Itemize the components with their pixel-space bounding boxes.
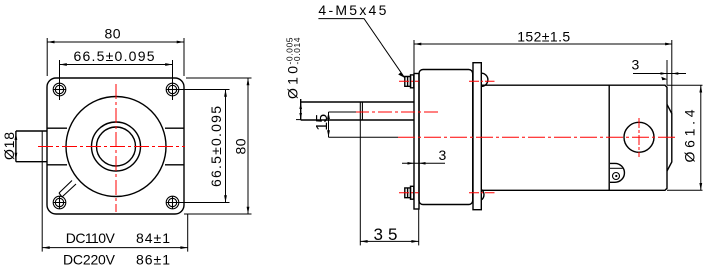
svg-text:3: 3 (632, 57, 640, 73)
dim 3 flange: leader (402, 162, 445, 164)
shaft centerline (355, 111, 438, 113)
svg-text:66.5±0.095: 66.5±0.095 (208, 106, 224, 187)
rear boss circle (624, 122, 654, 152)
dim 84 bottom: line (42, 247, 187, 249)
dim 3 top rear: line (633, 73, 686, 75)
arrows dim 15 (327, 112, 330, 119)
dim 3 rear ext left upper (666, 60, 668, 85)
arrows dim 152 (414, 43, 421, 46)
adapter plate (473, 63, 481, 210)
svg-text:84±1: 84±1 (136, 230, 170, 246)
dim 152 ext left (above flange) (413, 40, 415, 74)
bolt axis top at motor (469, 80, 495, 82)
arrowheads right view (299, 43, 702, 243)
horizontal centerline (38, 146, 185, 148)
shaft end face (300, 99, 302, 120)
arrows dim 35 (360, 240, 367, 243)
dim 66.5 top: line (60, 64, 173, 66)
bolt dome bottom front (481, 189, 484, 200)
flange square outline (47, 78, 184, 214)
shaft step groove (360, 102, 362, 120)
svg-text:86±1: 86±1 (136, 252, 170, 267)
dim 35 line (360, 240, 418, 242)
svg-text:Ø18: Ø18 (1, 132, 17, 160)
dim 80 right ext lines (186, 78, 252, 214)
screw head top-left (53, 83, 66, 96)
arrows dim 80 right (247, 78, 250, 85)
bolt axis bottom at flange (399, 192, 419, 194)
arrows dim 84 bottom (42, 246, 49, 249)
svg-text:Ø61.4: Ø61.4 (682, 109, 698, 162)
screw head bottom-left (53, 196, 66, 209)
svg-text:DC110V: DC110V (66, 230, 116, 246)
dim O61.4 line (700, 85, 702, 190)
red centerlines right view (355, 81, 678, 193)
main motor centerline (398, 136, 678, 138)
vertical centerline (115, 84, 117, 212)
svg-text:15: 15 (314, 114, 331, 131)
rear boss (667, 105, 672, 172)
svg-text:Ø10: Ø10 (285, 66, 301, 99)
arrows dim 3 flange (408, 162, 415, 165)
dim 152 ext right / boss ext (671, 40, 673, 114)
right side boss (165, 128, 184, 165)
rear circle vertical centerline (638, 118, 640, 157)
arrows dim 66.5 top (60, 63, 67, 66)
dim 84 bottom right ext line (184, 214, 188, 252)
svg-text:66.5±0.095: 66.5±0.095 (74, 48, 155, 64)
dim 80 top: line (47, 41, 184, 43)
arrows dim O61.4 (699, 85, 702, 92)
svg-text:152±1.5: 152±1.5 (517, 29, 570, 45)
arrows dim 80 top (47, 41, 54, 44)
red centerlines, left view (38, 84, 185, 212)
arrow of 4-M5x45 leader (398, 73, 404, 78)
motor cap seam (608, 85, 610, 190)
svg-text:80: 80 (105, 26, 121, 42)
dim 35 ext right (418, 209, 420, 245)
small arrow at rear cap corner (661, 77, 667, 80)
screw head top-right (166, 83, 179, 96)
left side boss (47, 128, 67, 165)
dim O10 leader bottom (296, 119, 301, 121)
shaft step line + bottom dim extension (41, 131, 43, 252)
bolt dome top front (481, 73, 488, 86)
screw head bottom-right (166, 196, 179, 209)
svg-text:DC220V: DC220V (63, 252, 116, 267)
flange plate (414, 74, 419, 210)
terminal cap bottom rear (610, 163, 624, 182)
arrows dim 3 rear (661, 72, 668, 75)
dim 15: line (328, 112, 330, 137)
dim 35 ext left (359, 120, 361, 245)
leader 4-M5x45 (318, 19, 404, 78)
hub circle inner (97, 127, 136, 166)
hub circle outer (92, 122, 141, 171)
dim 80 right vertical: line (247, 78, 249, 214)
svg-text:-0.014: -0.014 (292, 37, 302, 64)
shaft top line (301, 101, 414, 103)
svg-text:3: 3 (439, 147, 447, 163)
gearbox body (419, 70, 473, 205)
dim 15 ext top (329, 111, 357, 113)
dim O61.4 ext lines (667, 85, 703, 190)
bolt axis bottom at motor (469, 192, 495, 194)
dim 80 top extension lines (47, 38, 184, 76)
dim 66.5 right vertical: line (225, 90, 227, 203)
dim 66.5 right ext lines (179, 90, 230, 203)
drain tab lower-left (59, 181, 76, 198)
texts left view (1, 26, 249, 267)
arrowheads left view (15, 41, 250, 249)
gearbox body circle (66, 97, 166, 197)
dim 66.5 top extension lines (60, 60, 173, 100)
bolt axis top at flange (399, 80, 419, 82)
M5 bolt head bottom (405, 188, 411, 198)
arrows dim O18 shaft (15, 133, 18, 140)
dim 15 ext bottom black (329, 136, 399, 138)
texts right view (285, 2, 698, 244)
shaft bottom line (301, 119, 414, 121)
svg-text:80: 80 (233, 138, 249, 154)
dim 152 line (414, 43, 672, 45)
M5 bolt head top (405, 77, 411, 87)
shaft side projection (16, 131, 47, 162)
arrows dim 66.5 right (224, 90, 227, 97)
motor body (481, 85, 667, 190)
arrows dim O10 (299, 103, 302, 110)
